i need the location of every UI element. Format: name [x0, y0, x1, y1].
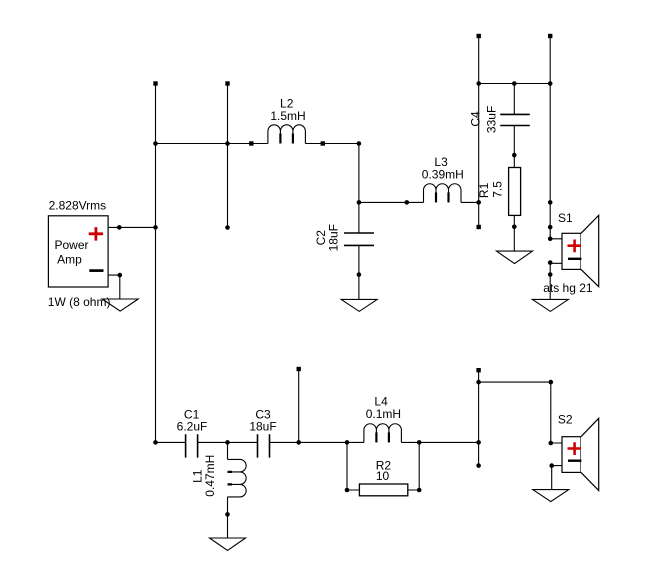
junction L3 V4: [476, 200, 481, 205]
corner S2 wire top: [549, 380, 554, 385]
label 18uF (C2): [327, 224, 341, 251]
label 0.39mH: [422, 168, 464, 182]
junction C4 top rail: [512, 81, 517, 86]
label 0.1mH: [366, 407, 401, 421]
junction S1 minus: [548, 260, 553, 265]
wire S1 minus to ground: [550, 263, 562, 299]
junction L1 top: [225, 440, 230, 445]
svg-text:10: 10: [376, 469, 390, 483]
label 0.47mH: [203, 455, 217, 497]
pin amp plus: [117, 225, 122, 230]
wire amp plus output: [108, 226, 155, 228]
wire horizontal to L3: [359, 201, 479, 203]
pin R2 right: [417, 488, 422, 493]
svg-text:18uF: 18uF: [249, 420, 276, 434]
wire end cap C3 stub top: [297, 367, 301, 371]
S1 plus sign: [568, 240, 582, 253]
junction amp plus V1: [153, 225, 158, 230]
wire bottom rail: [156, 441, 479, 443]
wire end V2 bottom: [225, 225, 230, 230]
junction L4 R2 right: [417, 440, 422, 445]
label C3: [255, 407, 271, 421]
wire C4 to R1: [513, 126, 515, 168]
pin R1 bottom: [512, 225, 517, 230]
label R1: [477, 182, 491, 198]
label C4: [469, 111, 483, 127]
junction S1 plus: [548, 237, 553, 242]
wire end cap V4 bottom: [477, 225, 481, 229]
resistor R1: [509, 168, 521, 216]
svg-text:18uF: 18uF: [327, 224, 341, 251]
svg-text:6.2uF: 6.2uF: [177, 420, 208, 434]
junction S2 plus: [549, 441, 554, 446]
junction L2 rail corner: [357, 141, 362, 146]
wire end cap S2 stub top: [476, 368, 480, 372]
label L2: [280, 97, 294, 111]
pin C4 bottom: [512, 153, 517, 158]
wire end S2 stub bottom: [476, 463, 481, 468]
wire right rail to S1: [550, 36, 562, 239]
junction S2 minus: [549, 463, 554, 468]
inductor L1 vertical: [228, 442, 247, 538]
label S2: [558, 412, 573, 426]
label Amp: [57, 253, 82, 267]
wire S2 minus to ground: [552, 466, 562, 490]
pin C2 bottom: [357, 272, 362, 277]
label 18uF (C3): [249, 420, 276, 434]
node S1 branch mid: [548, 225, 553, 230]
corner amp minus: [118, 273, 123, 278]
wire net1 vertical left rail: [155, 84, 157, 443]
label R2: [376, 458, 392, 472]
svg-text:S1: S1: [558, 211, 573, 225]
wire end cap V2 top: [225, 81, 229, 85]
svg-text:0.47mH: 0.47mH: [203, 455, 217, 497]
S2 plus sign: [568, 442, 582, 455]
wire end cap S1 branch top: [548, 34, 552, 38]
wire top horizontal: [479, 83, 551, 85]
node S1 branch upper: [548, 200, 553, 205]
speaker S1: [562, 215, 599, 286]
ground S1: [532, 299, 568, 311]
junction S2 stub rail: [476, 440, 481, 445]
corner V1 bottom rail: [153, 440, 158, 445]
svg-text:Power: Power: [55, 238, 89, 252]
label ats hg 21: [543, 281, 593, 295]
pin L3 left: [405, 200, 410, 205]
svg-text:1.5mH: 1.5mH: [270, 109, 305, 123]
svg-text:S2: S2: [558, 412, 573, 426]
label S1: [558, 211, 573, 225]
wire horizontal to L2: [156, 143, 359, 145]
pin L1 bottom: [225, 512, 230, 517]
inductor L2: [268, 125, 306, 144]
svg-text:Amp: Amp: [57, 253, 82, 267]
corner V4 top rail: [476, 81, 481, 86]
junction S2 branch corner: [476, 380, 481, 385]
junction V1 L2 rail: [153, 141, 158, 146]
ground L1: [210, 538, 246, 551]
ground C2: [341, 299, 377, 311]
power amp plus sign: [89, 227, 103, 241]
label 7.5: [491, 181, 505, 198]
label 1.5mH: [270, 109, 305, 123]
S1 minus sign: [568, 258, 581, 260]
svg-text:R1: R1: [477, 182, 491, 198]
wire C4 branch upper: [513, 84, 515, 115]
resistor R2: [359, 484, 407, 496]
label L1: [190, 469, 204, 483]
wire amp minus to ground: [108, 275, 120, 299]
svg-text:C4: C4: [469, 111, 483, 127]
svg-text:0.1mH: 0.1mH: [366, 407, 401, 421]
junction C2 branch: [357, 200, 362, 205]
power amp V1 box: [48, 216, 108, 287]
corner S1 branch top rail: [548, 81, 553, 86]
capacitor C1: [186, 434, 198, 457]
label Power: [55, 238, 89, 252]
svg-text:2.828Vrms: 2.828Vrms: [49, 199, 107, 213]
ground S2: [533, 490, 569, 502]
wire down from L2 to C2: [358, 144, 360, 234]
pin L2 right: [321, 141, 325, 145]
svg-text:ats hg 21: ats hg 21: [543, 281, 593, 295]
svg-text:1W (8 ohm): 1W (8 ohm): [48, 295, 111, 309]
capacitor C2: [344, 233, 374, 245]
pin R2 left: [345, 488, 350, 493]
capacitor C3: [258, 434, 270, 457]
svg-text:33uF: 33uF: [485, 106, 499, 133]
junction L4 R2 left: [345, 440, 350, 445]
label 10: [376, 469, 390, 483]
svg-text:0.39mH: 0.39mH: [422, 168, 464, 182]
svg-text:7.5: 7.5: [491, 181, 505, 198]
wire S2 branch horizontal: [479, 382, 562, 443]
label 33uF: [485, 106, 499, 133]
power amp minus sign: [89, 269, 103, 272]
wire C3 branch stub: [298, 369, 300, 442]
wire end cap right branch top: [477, 34, 481, 38]
capacitor C4: [500, 114, 530, 125]
wire vertical right of L3: [478, 36, 480, 227]
label 6.2uF: [177, 420, 208, 434]
junction C3 stub rail: [296, 440, 301, 445]
wire C2 to ground: [358, 245, 360, 299]
node S1 ground wire: [548, 272, 553, 277]
junction V2 L2 rail: [225, 141, 230, 146]
wire stub top-left second: [227, 84, 229, 228]
label 2.828Vrms: [49, 199, 107, 213]
speaker S2: [562, 418, 599, 490]
label 1W (8 ohm): [48, 295, 111, 309]
label L4: [374, 394, 388, 408]
inductor L4: [364, 424, 402, 443]
resistor R2 parallel wires: [347, 442, 419, 490]
S2 minus sign: [568, 460, 581, 462]
wire R1 to ground: [513, 215, 515, 251]
wire S2 branch vertical: [478, 370, 480, 465]
pin L2 left: [249, 141, 253, 145]
inductor L3: [424, 184, 462, 203]
ground amp: [102, 299, 138, 311]
label C1: [184, 407, 200, 421]
label C2: [314, 230, 328, 246]
ground R1: [497, 251, 533, 264]
label L3: [434, 155, 448, 169]
wire end cap V1 top: [153, 81, 157, 85]
